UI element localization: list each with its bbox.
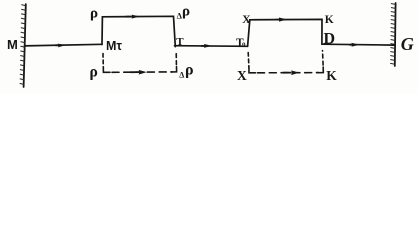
svg-text:ρ: ρ [182, 4, 190, 20]
svg-text:D: D [324, 31, 336, 48]
svg-text:K: K [326, 68, 337, 83]
svg-text:ρ: ρ [185, 61, 194, 78]
svg-text:X: X [242, 14, 251, 26]
svg-text:Δ: Δ [179, 70, 184, 79]
svg-text:o: o [242, 40, 246, 48]
svg-text:ρ: ρ [90, 6, 98, 22]
svg-text:M: M [7, 37, 18, 52]
svg-text:G: G [401, 34, 414, 54]
svg-text:T: T [176, 36, 184, 48]
svg-text:X: X [237, 68, 247, 83]
svg-text:ρ: ρ [90, 64, 98, 81]
svg-text:K: K [325, 14, 334, 26]
svg-text:Mτ: Mτ [106, 39, 122, 53]
